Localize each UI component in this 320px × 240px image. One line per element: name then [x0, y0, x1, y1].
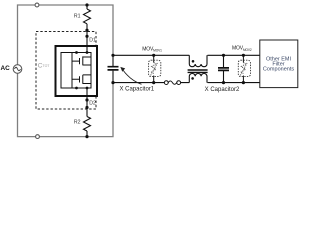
node: open terminal top [35, 3, 39, 7]
resistor R2 [84, 117, 91, 132]
wire: AC outer loop (gray) [18, 5, 114, 137]
IC U1 body [56, 46, 98, 96]
varistor RV1 [151, 63, 158, 76]
common-mode choke L1: bottom winding [189, 73, 207, 82]
IC internal bus wires [72, 53, 91, 89]
MOV2 branch wire [242, 55, 244, 82]
X capacitor C1 [108, 55, 119, 82]
MOSFET Q2 (lower) [72, 75, 91, 84]
AC source [13, 65, 22, 74]
resistor R1 [84, 9, 91, 24]
junction dots MOV1 [152, 54, 155, 84]
wire: filter top rail [113, 54, 260, 56]
common-mode choke L1: top winding [189, 55, 207, 66]
MOV1 branch wire [153, 55, 155, 82]
node: open terminal bottom [36, 135, 40, 139]
MOV1 dashed box [149, 60, 161, 76]
svg-text:Components: Components [263, 67, 294, 73]
svg-text:CTOT: CTOT [38, 62, 51, 69]
varistor RV2 [240, 63, 247, 76]
svg-text:MOVMOV2: MOVMOV2 [232, 46, 252, 52]
junction dots at C1 [111, 54, 114, 84]
wire: filter bottom rail [113, 82, 260, 84]
IC dashed boundary [36, 32, 96, 110]
fuse F1 [164, 81, 180, 85]
choke core [188, 70, 208, 72]
svg-text:X Capacitor2: X Capacitor2 [205, 87, 240, 93]
MOSFET Q1 (upper) [72, 56, 91, 65]
svg-text:X Capacitor1: X Capacitor1 [119, 87, 154, 93]
label Other EMI Filter Components [263, 57, 294, 73]
annotation arrow to C1 [120, 67, 141, 84]
MOV2 dashed box [238, 60, 250, 76]
wire: discharge branch vertical (lower) [86, 88, 88, 137]
svg-text:D2: D2 [89, 100, 96, 106]
svg-text:AC: AC [1, 65, 11, 72]
other EMI filter components box [260, 40, 298, 88]
svg-text:MOVMOV1: MOVMOV1 [142, 47, 162, 53]
choke phase dot (bottom) [191, 77, 194, 80]
junction dots MOV2 [242, 54, 245, 84]
svg-text:R2: R2 [74, 119, 81, 125]
X capacitor C2 [218, 55, 229, 82]
svg-text:D1: D1 [89, 37, 96, 43]
junction dots on branch [85, 3, 88, 138]
svg-text:R1: R1 [74, 13, 81, 19]
choke phase dot (top) [192, 60, 195, 63]
junction dots inside IC [75, 51, 88, 89]
junction dots at C2 [222, 54, 225, 84]
IC internal control block [61, 53, 72, 89]
wire: discharge branch vertical (upper) [86, 5, 88, 53]
